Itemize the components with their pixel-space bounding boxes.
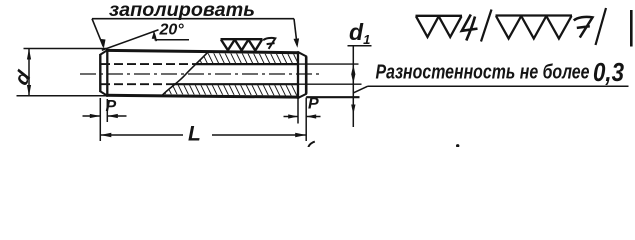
hatching lower wall — [164, 85, 298, 96]
pin left end face — [99, 54, 101, 92]
dimension L arrows — [100, 133, 111, 137]
chamfer angle 20 deg line — [102, 30, 159, 51]
hole bottom line in section — [173, 83, 298, 85]
corner roughness mark VV4 — [416, 16, 463, 37]
angle arc with arrow — [154, 32, 157, 41]
dimension P left arrows — [90, 114, 101, 118]
svg-text:P: P — [106, 98, 117, 115]
leader right slant — [294, 19, 297, 45]
dimension L line — [100, 134, 183, 136]
svg-text:20°: 20° — [159, 22, 185, 39]
hole hidden top line (dashed) — [101, 63, 196, 65]
dimension P left extension — [106, 99, 108, 122]
pin right chamfer edge — [297, 51, 299, 99]
dimension d line — [28, 49, 30, 97]
dimension d1 line — [352, 46, 354, 127]
note underline — [368, 85, 629, 87]
hole top extension line right — [298, 63, 359, 65]
dimension P right line — [284, 116, 298, 118]
dimension d1 arrow up — [351, 65, 355, 75]
pin left chamfer slants — [100, 50, 108, 96]
pin top outline — [106, 50, 299, 52]
leader left arrow — [100, 39, 106, 49]
frame border segment right edge — [630, 10, 633, 47]
surface finish mark V V V 7 on pin — [221, 39, 263, 50]
cut-off dot bottom right — [456, 144, 459, 147]
pin bottom outline — [106, 95, 299, 97]
hole hidden bottom line (dashed) — [101, 83, 173, 85]
dimension P right extension — [297, 98, 299, 124]
angle label underline — [155, 39, 190, 41]
cut-off stroke bottom left — [308, 142, 315, 147]
leader left slant — [92, 19, 103, 47]
pin right chamfer slants — [298, 52, 307, 98]
bottom outline extension to d1 line — [306, 96, 359, 98]
break line (local section boundary) — [162, 51, 209, 96]
slash 2 — [596, 8, 607, 45]
note leader — [354, 86, 368, 93]
dimension d1 underline — [348, 45, 372, 47]
pin left chamfer edge — [106, 49, 108, 97]
leader right arrow — [294, 38, 300, 47]
digit 7 of surface mark — [263, 38, 275, 49]
dimension d extension line bottom — [17, 95, 107, 97]
dimension d extension line top — [24, 48, 107, 50]
svg-text:L: L — [188, 123, 201, 146]
corner roughness mark VVV7 — [496, 16, 573, 39]
axis center line — [80, 73, 322, 75]
dimension L extension right — [305, 98, 307, 142]
svg-text:Разностенность не более: Разностенность не более — [376, 61, 590, 84]
hole top line in section — [196, 63, 298, 65]
svg-text:0,3: 0,3 — [593, 57, 624, 87]
leader arrowhead on d1 line — [351, 105, 355, 115]
digit 7 — [574, 17, 593, 38]
hole bottom extension line right — [298, 83, 362, 85]
dimension P right arrows — [288, 114, 298, 118]
pin right end face — [305, 56, 308, 94]
hatching upper wall — [197, 53, 298, 63]
dimension d arrow down — [27, 85, 31, 96]
dimension d1 arrow down — [351, 74, 355, 84]
digit 4 — [462, 15, 478, 41]
slash 1 — [481, 10, 492, 42]
dimension d arrow up — [27, 49, 31, 60]
dimension L extension left — [99, 98, 101, 141]
dimension P left line — [83, 115, 101, 117]
leader underline — [92, 18, 294, 20]
svg-text:заполировать: заполировать — [109, 0, 255, 21]
